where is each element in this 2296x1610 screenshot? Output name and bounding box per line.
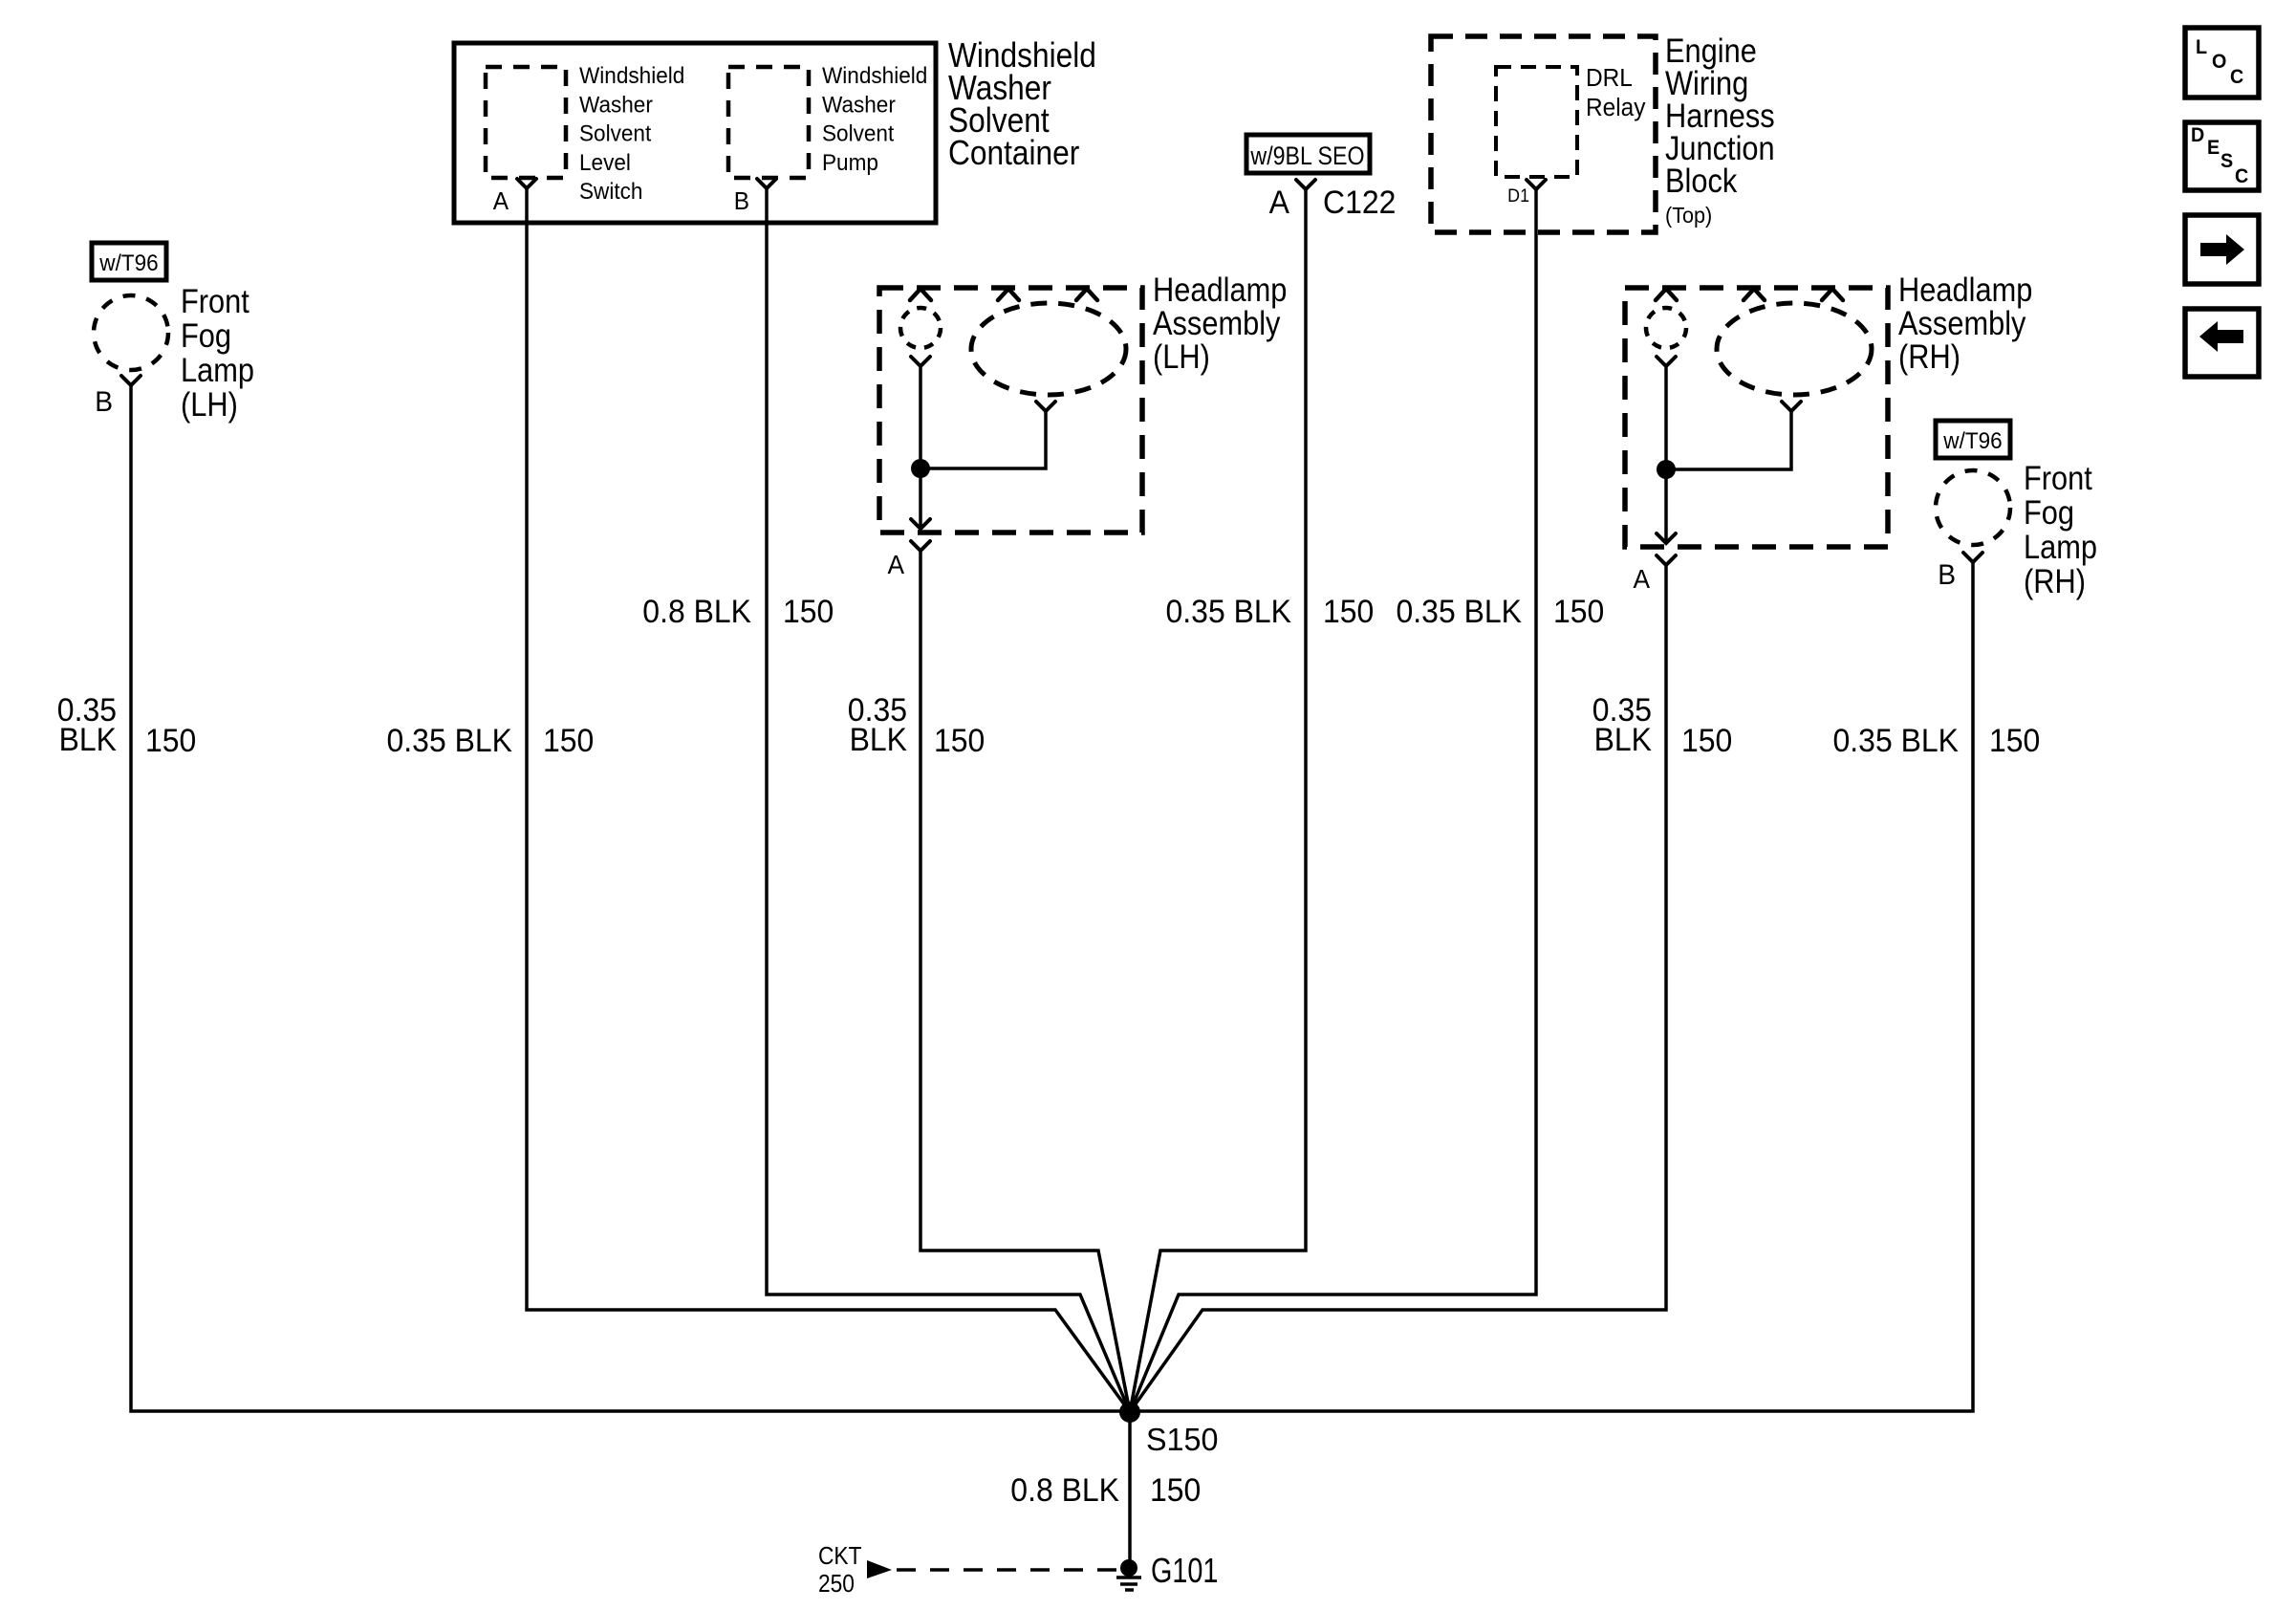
- svg-text:C: C: [2230, 66, 2244, 88]
- headlamp assembly (LH): [879, 288, 1142, 533]
- wire label 0.35 BLK 150 (DRL wire): [1397, 593, 1605, 629]
- wire: headlamp RH to S150: [1130, 565, 1666, 1412]
- wire label 0.8 BLK 150 (pump wire): [642, 593, 834, 629]
- svg-text:Lamp: Lamp: [181, 351, 254, 388]
- svg-text:250: 250: [818, 1571, 855, 1599]
- svg-text:Level: Level: [579, 149, 631, 175]
- svg-text:Windshield: Windshield: [579, 62, 684, 88]
- wire label 0.35 BLK 150 (headlamp RH wire): [1592, 691, 1733, 758]
- svg-text:A: A: [1269, 184, 1289, 220]
- w/T96 flag (LH): [92, 243, 166, 280]
- svg-text:150: 150: [1323, 593, 1374, 629]
- svg-text:D1: D1: [1507, 185, 1529, 206]
- svg-text:BLK: BLK: [59, 721, 117, 757]
- svg-text:E: E: [2207, 137, 2220, 159]
- svg-text:w/T96: w/T96: [1942, 427, 2002, 453]
- w/T96 flag (RH): [1936, 421, 2010, 458]
- svg-text:L: L: [2196, 36, 2207, 58]
- svg-text:Windshield: Windshield: [822, 62, 927, 88]
- svg-text:(Top): (Top): [1665, 203, 1712, 228]
- svg-text:Solvent: Solvent: [579, 120, 652, 146]
- svg-text:BLK: BLK: [850, 721, 907, 757]
- ground G101: [1116, 1551, 1218, 1590]
- CKT 250 reference arrow: [818, 1543, 1119, 1599]
- svg-text:Fog: Fog: [181, 316, 231, 354]
- w/9BL SEO flag: [1246, 135, 1370, 173]
- svg-text:150: 150: [1681, 722, 1732, 758]
- svg-text:Solvent: Solvent: [822, 120, 895, 146]
- svg-text:150: 150: [1150, 1471, 1201, 1508]
- svg-text:Block: Block: [1665, 162, 1738, 199]
- svg-text:Headlamp: Headlamp: [1898, 271, 2032, 308]
- svg-text:S150: S150: [1146, 1422, 1219, 1457]
- wire label 0.8 BLK 150 (ground wire): [1010, 1471, 1201, 1508]
- svg-text:(LH): (LH): [181, 385, 238, 423]
- splice S150: [1119, 1402, 1219, 1457]
- wire: washer level switch A to S150: [527, 188, 1130, 1412]
- wire label 0.35 BLK 150 (fog RH wire): [1833, 722, 2041, 758]
- DESC icon: [2185, 122, 2259, 190]
- svg-text:A: A: [1633, 563, 1650, 594]
- svg-text:Assembly: Assembly: [1153, 304, 1281, 341]
- svg-text:150: 150: [934, 722, 985, 758]
- windshield washer solvent level switch: [486, 62, 684, 204]
- svg-text:150: 150: [543, 722, 594, 758]
- label: Front Fog Lamp (LH): [181, 282, 254, 423]
- svg-text:D: D: [2191, 124, 2204, 146]
- wire: fog lamp LH to S150: [131, 385, 1130, 1411]
- svg-text:150: 150: [145, 722, 196, 758]
- svg-text:150: 150: [1989, 722, 2040, 758]
- svg-text:BLK: BLK: [1594, 721, 1652, 757]
- svg-text:Washer: Washer: [579, 92, 653, 118]
- svg-text:Washer: Washer: [822, 92, 896, 118]
- svg-text:CKT: CKT: [818, 1543, 862, 1571]
- label: Engine Wiring Harness Junction Block (Top): [1665, 32, 1775, 228]
- DRL relay: [1496, 64, 1646, 177]
- svg-text:Switch: Switch: [579, 179, 642, 205]
- pin B (fog RH): [1938, 553, 1982, 591]
- windshield washer solvent pump: [728, 62, 927, 178]
- pin B (pump): [734, 179, 776, 215]
- pin B (fog LH): [95, 376, 141, 418]
- label: Headlamp Assembly (LH): [1153, 271, 1287, 375]
- front fog lamp (LH) bulb: [94, 295, 168, 370]
- wire: washer pump B to S150: [767, 188, 1130, 1412]
- svg-text:G101: G101: [1151, 1551, 1218, 1590]
- svg-text:Headlamp: Headlamp: [1153, 271, 1287, 308]
- svg-text:w/9BL SEO: w/9BL SEO: [1250, 141, 1365, 170]
- svg-text:0.8 BLK: 0.8 BLK: [642, 593, 751, 629]
- svg-text:0.35 BLK: 0.35 BLK: [1166, 593, 1291, 629]
- svg-text:(RH): (RH): [2024, 562, 2086, 599]
- svg-text:(LH): (LH): [1153, 337, 1210, 375]
- wire: DRL relay D1 to S150: [1130, 189, 1536, 1412]
- svg-text:O: O: [2212, 51, 2226, 73]
- wire label 0.35 BLK 150 (fog LH wire): [57, 691, 197, 758]
- svg-text:Lamp: Lamp: [2024, 528, 2097, 565]
- svg-text:0.35 BLK: 0.35 BLK: [1397, 593, 1522, 629]
- LOC icon: [2185, 28, 2259, 98]
- pin D1: [1507, 180, 1546, 206]
- svg-text:S: S: [2220, 150, 2233, 172]
- svg-text:Front: Front: [2024, 459, 2092, 496]
- svg-text:Assembly: Assembly: [1898, 304, 2026, 341]
- svg-text:DRL: DRL: [1586, 64, 1633, 92]
- svg-text:0.35 BLK: 0.35 BLK: [387, 722, 512, 758]
- svg-text:150: 150: [1553, 593, 1604, 629]
- svg-text:C122: C122: [1323, 184, 1396, 220]
- wire label 0.35 BLK 150 (level switch wire): [387, 722, 595, 758]
- forward arrow icon: [2185, 215, 2259, 284]
- pin A (headlamp RH): [1633, 555, 1676, 594]
- svg-text:Container: Container: [948, 134, 1079, 172]
- windshield washer solvent container box: [454, 43, 936, 223]
- svg-text:150: 150: [783, 593, 834, 629]
- svg-text:C: C: [2235, 165, 2249, 187]
- svg-text:w/T96: w/T96: [98, 250, 158, 275]
- svg-text:B: B: [1938, 559, 1956, 591]
- wire label 0.35 BLK 150 (C122 wire): [1166, 593, 1375, 629]
- back arrow icon: [2185, 309, 2259, 377]
- label: Front Fog Lamp (RH): [2024, 459, 2097, 599]
- svg-text:Front: Front: [181, 282, 249, 319]
- svg-text:A: A: [887, 549, 904, 579]
- svg-text:(RH): (RH): [1898, 337, 1960, 375]
- wire: C122 to S150: [1130, 189, 1306, 1412]
- svg-text:A: A: [493, 187, 509, 215]
- wire: fog lamp RH to S150: [1130, 562, 1973, 1411]
- svg-text:B: B: [734, 187, 749, 215]
- label: Headlamp Assembly (RH): [1898, 271, 2032, 375]
- label: Windshield Washer Solvent Container: [948, 36, 1096, 172]
- svg-text:0.8 BLK: 0.8 BLK: [1010, 1471, 1119, 1508]
- svg-text:B: B: [95, 386, 113, 418]
- headlamp assembly (RH): [1625, 288, 1888, 547]
- svg-text:0.35 BLK: 0.35 BLK: [1833, 722, 1959, 758]
- svg-text:Fog: Fog: [2024, 493, 2074, 531]
- engine wiring harness junction block: [1431, 36, 1656, 232]
- pin A / connector C122: [1269, 180, 1397, 220]
- svg-text:Relay: Relay: [1586, 94, 1646, 121]
- svg-text:Pump: Pump: [822, 149, 878, 175]
- wire label 0.35 BLK 150 (headlamp LH wire): [848, 691, 986, 758]
- wire: S150 to G101 (0.8 BLK 150): [1128, 1412, 1132, 1568]
- front fog lamp (RH) bulb: [1936, 470, 2010, 545]
- pin A (level switch): [493, 179, 536, 215]
- pin A (headlamp LH): [887, 541, 930, 579]
- wire: headlamp LH to S150: [921, 551, 1130, 1412]
